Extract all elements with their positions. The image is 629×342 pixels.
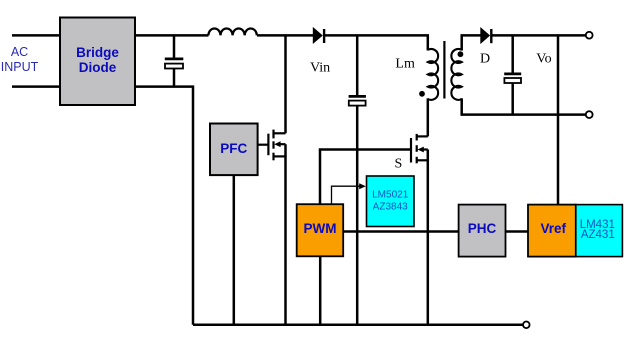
terminal output minus [586, 111, 593, 118]
transistor Q1 (PFC MOSFET) [258, 130, 286, 161]
transformer T1 [428, 41, 462, 100]
chip label box LM5021/AZ3843 [367, 176, 415, 227]
wire PWM bottom lead [319, 256, 322, 325]
wire diode Vin to transformer primary [324, 35, 428, 50]
wire inductor to diode [257, 34, 313, 37]
wire node Vin vertical C2 [356, 35, 359, 325]
svg-text:Vin: Vin [310, 61, 330, 76]
diode D (output rectifier) [480, 27, 491, 44]
wire node C1 bottom lead [173, 69, 176, 87]
terminal bottom rail [523, 322, 530, 329]
wire secondary bottom lead and rail [462, 98, 586, 114]
svg-text:Diode: Diode [79, 60, 117, 75]
wire PFC drain vertical [284, 35, 287, 133]
wire output cap C3 leads [511, 35, 514, 114]
terminal output plus [586, 32, 593, 39]
svg-text:D: D [480, 52, 490, 67]
polarity dot secondary [458, 51, 464, 57]
PFC box [210, 124, 258, 176]
svg-text:PFC: PFC [220, 141, 247, 156]
wire AC input top [12, 34, 60, 37]
wire secondary top lead [462, 35, 481, 50]
wire PFC box bottom lead [233, 175, 236, 325]
capacitor C2 [349, 96, 366, 105]
wire node C1 top lead [173, 35, 176, 57]
svg-text:AZ431: AZ431 [581, 229, 615, 241]
wire gate of MOSFET S from PWM [320, 150, 411, 205]
capacitor C1 [165, 59, 184, 69]
wire diode D to output terminal [491, 34, 586, 37]
svg-text:AZ3843: AZ3843 [373, 202, 408, 213]
diode Vin (input diode) [313, 27, 324, 44]
wire AC input bottom [12, 85, 60, 88]
PWM box [297, 204, 344, 256]
svg-text:Vo: Vo [536, 52, 551, 67]
svg-text:Bridge: Bridge [76, 45, 119, 60]
transistor Q2 (MOSFET S) [411, 134, 428, 163]
bridge diode box [60, 18, 135, 106]
primary winding Lm [428, 49, 438, 100]
wire bridge output bottom [135, 87, 193, 325]
wire MOSFET S source to bottom rail [427, 150, 430, 326]
wire arrow PWM to LM5021 [332, 183, 366, 204]
svg-text:LM5021: LM5021 [372, 190, 409, 201]
wire feedback Vo to Vref [557, 35, 560, 204]
inductor L1 [208, 28, 256, 35]
wire PHC to Vref [506, 230, 529, 233]
svg-text:PWM: PWM [304, 221, 337, 236]
PHC box [459, 205, 506, 257]
label AC INPUT [1, 45, 39, 74]
svg-text:Vref: Vref [541, 221, 567, 236]
wire PFC source to bottom rail [284, 144, 287, 325]
svg-text:PHC: PHC [468, 221, 497, 236]
Vref box [528, 205, 576, 257]
polarity dot primary [419, 91, 425, 97]
svg-text:AC: AC [11, 45, 28, 59]
core [443, 41, 445, 99]
wire bridge output top [135, 34, 209, 37]
svg-text:S: S [395, 157, 403, 172]
wire transformer primary bottom to MOSFET S drain [427, 98, 430, 136]
svg-text:Lm: Lm [395, 57, 415, 72]
capacitor C3 [504, 74, 521, 83]
secondary winding [451, 49, 461, 100]
wire bottom rail [193, 324, 523, 327]
wire PWM to PHC [343, 230, 458, 233]
chip label box LM431/AZ431 [576, 205, 623, 257]
svg-text:INPUT: INPUT [1, 60, 39, 74]
